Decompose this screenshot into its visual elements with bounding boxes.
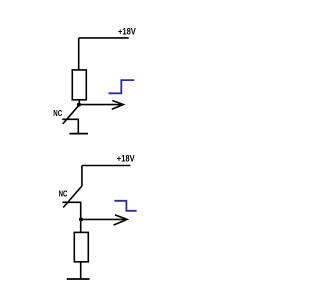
svg-text:NC: NC — [53, 109, 62, 118]
wire: rail down to switch blade (bottom circuit) — [81, 166, 83, 187]
waveform: rising step (blue, top circuit) — [109, 80, 135, 93]
ground (top circuit) — [69, 133, 88, 135]
waveform: falling step (blue, bottom circuit) — [114, 201, 136, 211]
wire: resistor bottom to output node (top circuit) — [78, 100, 80, 105]
wire: +18V rail horizontal (bottom circuit) — [82, 165, 130, 167]
svg-text:+18V: +18V — [118, 26, 136, 36]
wire: rail down to resistor R top (top circuit) — [78, 38, 80, 70]
node: output junction dot (bottom circuit) — [79, 217, 83, 221]
wire: output arrow shaft (top circuit) — [80, 104, 123, 106]
wire: output arrow shaft (bottom circuit) — [82, 218, 125, 220]
resistor R (top circuit, box symbol) — [72, 70, 86, 100]
wire: output node down to resistor R top (bottom circuit) — [80, 219, 82, 232]
svg-text:NC: NC — [59, 190, 68, 199]
switch S2 fixed contact bar and wire to output node (bottom circuit) — [62, 202, 80, 219]
switch S1 blade (NC pushbutton, top circuit) — [63, 105, 80, 124]
wire: resistor bottom to ground (bottom circuit) — [80, 262, 82, 279]
switch S2 blade (NC pushbutton, bottom circuit) — [63, 186, 82, 208]
resistor R (bottom circuit, box symbol) — [74, 232, 88, 261]
node: output junction dot (top circuit) — [77, 103, 81, 107]
svg-text:+18V: +18V — [117, 154, 135, 164]
arrowhead of output arrow (bottom circuit) — [114, 215, 128, 225]
ground (bottom circuit) — [67, 278, 90, 280]
arrowhead of output arrow (top circuit) — [112, 101, 124, 110]
switch S1 fixed contact bar and wire to ground (top circuit) — [62, 119, 78, 133]
wire: +18V rail horizontal (top circuit) — [79, 37, 129, 39]
